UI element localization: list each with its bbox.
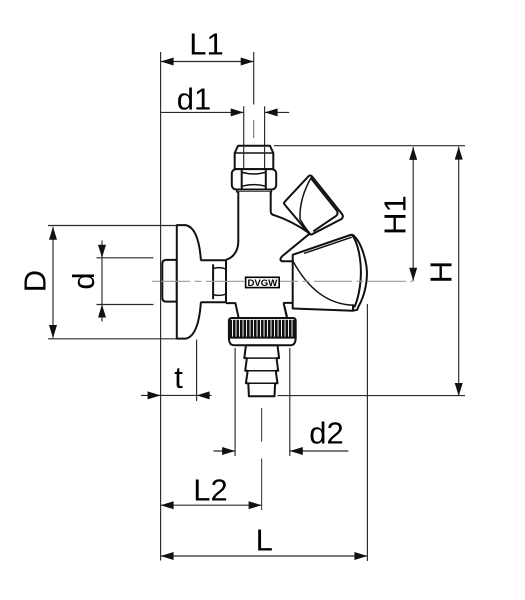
stem boss between body and main handle (lower)	[284, 306, 287, 316]
hex section between rosette and body	[201, 260, 226, 304]
dimension L2	[161, 473, 262, 510]
dimension H1	[274, 146, 465, 281]
svg-text:L2: L2	[193, 473, 227, 508]
svg-text:H: H	[424, 261, 459, 283]
svg-text:t: t	[174, 360, 183, 395]
hose barb	[244, 345, 279, 396]
dimension t	[141, 340, 212, 402]
knurled hose-union nut	[229, 318, 296, 345]
svg-text:D: D	[18, 270, 53, 292]
svg-text:d1: d1	[177, 82, 211, 117]
dimension H	[278, 147, 466, 396]
DVGW label	[246, 277, 280, 289]
washer under top nut	[237, 190, 272, 192]
svg-text:d2: d2	[309, 416, 343, 451]
upper small handle (backflow preventer cap)	[284, 175, 343, 234]
dimension L1	[161, 27, 254, 561]
dimension d1	[161, 82, 290, 117]
svg-text:H1: H1	[378, 195, 413, 235]
node: horizontal centerline through valve axis	[152, 280, 413, 282]
wall rosette flange	[177, 225, 201, 339]
svg-text:L: L	[256, 522, 273, 557]
compression cap (top fitting)	[235, 146, 274, 169]
dimension D	[18, 226, 177, 339]
node: vertical centerline of bottom outlet	[261, 408, 263, 510]
dimension d2	[214, 348, 349, 456]
svg-text:d: d	[66, 272, 101, 289]
hex nut (top compression nut)	[232, 169, 276, 189]
dimension d	[66, 241, 154, 322]
wire: top pipe (thin copper tube)	[244, 106, 265, 169]
main handle	[293, 235, 367, 311]
svg-text:L1: L1	[189, 27, 223, 62]
node: vertical centerline of top pipe	[253, 52, 255, 138]
outlet boss (45-deg upper outlet cylinder)	[271, 211, 310, 261]
stem boss between body and main handle (upper)	[280, 234, 309, 262]
valve body	[226, 192, 293, 318]
dimension L	[161, 304, 368, 561]
wall thread stub	[162, 260, 177, 302]
svg-text:DVGW: DVGW	[247, 278, 278, 289]
